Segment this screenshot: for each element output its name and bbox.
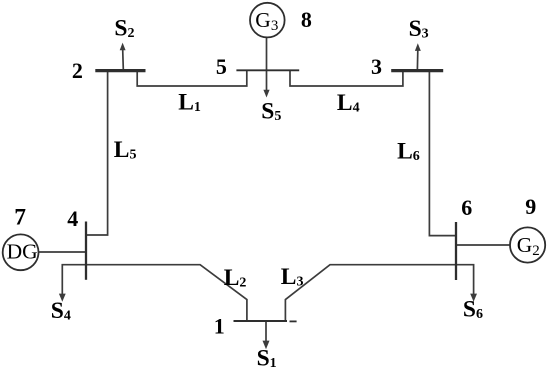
svg-text:4: 4 [67,206,78,231]
svg-text:1: 1 [214,314,225,339]
svg-text:8: 8 [301,7,312,32]
svg-text:9: 9 [525,194,536,219]
svg-text:DG: DG [7,240,38,264]
svg-text:2: 2 [72,58,83,83]
svg-text:5: 5 [216,54,227,79]
svg-text:6: 6 [461,195,472,220]
svg-text:3: 3 [371,54,382,79]
svg-text:7: 7 [14,204,26,230]
